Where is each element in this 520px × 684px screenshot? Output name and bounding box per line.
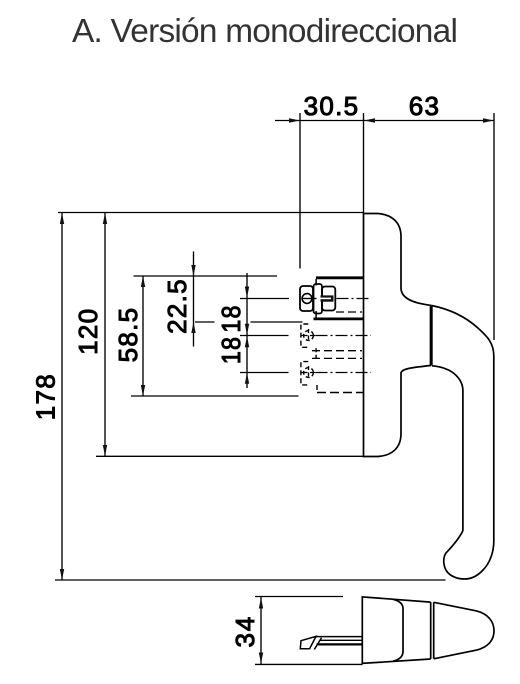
handle joint line bbox=[430, 305, 432, 365]
screw body block bbox=[322, 287, 335, 311]
svg-text:120: 120 bbox=[73, 308, 103, 355]
svg-text:22.5: 22.5 bbox=[162, 278, 192, 334]
svg-text:63: 63 bbox=[409, 91, 441, 121]
hidden screw3 bracket bbox=[301, 362, 308, 385]
screw clip bbox=[314, 284, 323, 314]
extension line screw2 axis y335.5 bbox=[240, 335, 289, 337]
arrow at x300 top dim bbox=[289, 118, 300, 122]
title bbox=[72, 15, 492, 48]
svg-text:30.5: 30.5 bbox=[304, 91, 360, 121]
arrow at x494 top dim bbox=[483, 118, 494, 122]
hidden screw3 circle bbox=[304, 368, 314, 378]
dim 18 18 bbox=[246, 273, 248, 388]
dim line 30.5/63 bbox=[275, 120, 494, 122]
extension line screw1 axis y298.5 bbox=[240, 298, 289, 300]
extension line handle outer x494 bbox=[493, 113, 495, 340]
hidden edge below screw1 bbox=[336, 311, 362, 313]
screw shank solid bbox=[321, 295, 334, 301]
screw head circle bbox=[302, 294, 312, 304]
arrow at x364 top dim bbox=[364, 118, 375, 122]
hidden screw2 bracket bbox=[301, 324, 308, 347]
extension line plate bottom y456.3 bbox=[96, 455, 364, 457]
screw washer bbox=[300, 286, 313, 311]
hidden screw2 cross bbox=[302, 335, 316, 337]
svg-text:18: 18 bbox=[216, 304, 246, 332]
extension line plate left x363.5 bbox=[363, 113, 365, 214]
extension line knob top y596.5 bbox=[255, 596, 343, 598]
spindle bar bbox=[316, 637, 363, 645]
dim 58.5 bbox=[142, 276, 144, 396]
hidden spindle square bbox=[312, 351, 362, 359]
extension line plate top y212.5 bbox=[58, 212, 364, 214]
extension line handle bottom y580 bbox=[55, 579, 446, 581]
extension line knob bottom y664.4 bbox=[255, 663, 363, 665]
centerline screw1 bbox=[337, 298, 372, 300]
knob joint lines bbox=[430, 602, 432, 659]
svg-text:58.5: 58.5 bbox=[113, 307, 143, 363]
spindle tip bbox=[300, 636, 316, 648]
centerline screw3 bbox=[316, 372, 372, 374]
dim 120 bbox=[104, 213, 106, 456]
extension line top hole y276 bbox=[134, 275, 278, 277]
knob cone bbox=[434, 602, 494, 659]
hidden screw2 circle bbox=[304, 331, 314, 341]
svg-text:18: 18 bbox=[216, 336, 246, 364]
screw slot line bbox=[302, 298, 317, 300]
svg-text:178: 178 bbox=[31, 373, 61, 420]
dim 22.5 bbox=[193, 252, 195, 347]
extension line y322 bbox=[195, 321, 303, 323]
knob collar line bbox=[393, 599, 403, 661]
boss top edge bbox=[316, 276, 364, 279]
handle lever bbox=[432, 306, 494, 580]
extension line bottom hole y396 bbox=[131, 395, 299, 397]
hidden boss bottom bbox=[316, 385, 318, 393]
rosette plate side view bbox=[364, 214, 431, 457]
hidden screw3 cross bbox=[302, 372, 316, 374]
knob outline bottom view bbox=[362, 597, 430, 664]
svg-text:34: 34 bbox=[230, 616, 260, 648]
boss bottom edge bbox=[314, 318, 364, 321]
dim 34 bbox=[260, 597, 262, 664]
extension line screw axis x300 bbox=[299, 113, 301, 269]
dim 178 bbox=[61, 213, 63, 580]
extension line screw3 axis y372.5 bbox=[240, 372, 289, 374]
centerline screw2 bbox=[316, 335, 372, 337]
